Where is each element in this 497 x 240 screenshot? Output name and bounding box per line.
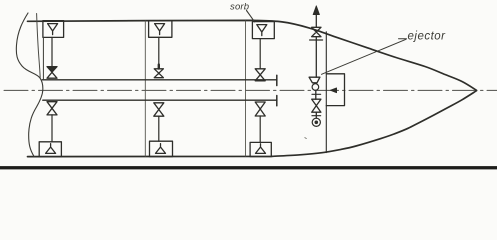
paper background xyxy=(0,0,497,172)
discharge pipe to ejector xyxy=(315,37,317,77)
suction box B2 bottom xyxy=(150,141,173,156)
ejector label dash xyxy=(399,38,407,40)
branch pipe 2 upper xyxy=(158,37,160,69)
bulkhead line 3 xyxy=(245,21,247,156)
flange tick below valve V5 xyxy=(312,115,321,117)
branch pipe 2 lower xyxy=(158,116,160,141)
valve V2 bottom xyxy=(154,103,164,116)
suction box B3 bottom xyxy=(250,142,271,156)
valve V4 lower flange tick xyxy=(310,39,323,41)
main suction pipe bottom line xyxy=(43,99,277,101)
ejector diffuser funnel xyxy=(309,77,320,83)
suction box B3 top xyxy=(252,22,274,39)
suction box B1 bottom xyxy=(39,142,61,157)
discharge pipe upper xyxy=(315,14,317,27)
driving water box xyxy=(326,74,344,106)
box B1 left edge extension xyxy=(42,37,44,79)
suction box B1 top xyxy=(43,21,64,38)
break line second strand xyxy=(37,14,41,78)
break line (wavy hull break at left) xyxy=(16,13,43,156)
pipe to bilge well xyxy=(315,112,317,118)
ejector leader line xyxy=(322,39,407,74)
flow arrow into ejector xyxy=(330,88,336,93)
suction box B2 top xyxy=(149,21,172,38)
centerline (dash-dot ship centreline) xyxy=(4,89,497,91)
hull top line xyxy=(28,20,477,90)
stray mark xyxy=(305,137,307,140)
valve V1 bottom xyxy=(47,102,57,115)
overboard discharge arrow xyxy=(313,6,319,15)
valve V1 top xyxy=(47,67,57,73)
flange tick above valve V5 xyxy=(312,93,321,95)
main suction pipe top line xyxy=(42,79,276,81)
branch pipe 3 lower xyxy=(259,116,261,142)
svg-text:ejector: ejector xyxy=(408,31,447,43)
valve V3 top xyxy=(255,69,265,81)
branch pipe 1 lower xyxy=(51,115,53,142)
ejector suction pipe xyxy=(315,90,317,99)
valve V2 top xyxy=(154,69,163,78)
valve V5 ejector suction xyxy=(312,99,321,112)
branch pipe 1 upper xyxy=(51,37,53,66)
ejector body circle xyxy=(312,84,319,91)
main pipe end flange bottom xyxy=(276,96,278,106)
sorb leader line xyxy=(247,11,255,22)
hull bottom line xyxy=(28,91,477,157)
branch pipe 3 upper xyxy=(259,39,261,69)
bulkhead line 2 xyxy=(144,21,146,156)
svg-text:sorb: sorb xyxy=(230,2,249,13)
bilge well rose circle xyxy=(312,118,320,126)
valve V3 bottom xyxy=(255,102,265,116)
bilge well rose dot xyxy=(315,121,319,125)
driving water vertical line xyxy=(325,32,327,153)
scan black bar xyxy=(0,166,497,169)
valve V4 hull discharge xyxy=(312,27,321,36)
main pipe end flange top xyxy=(276,75,278,85)
